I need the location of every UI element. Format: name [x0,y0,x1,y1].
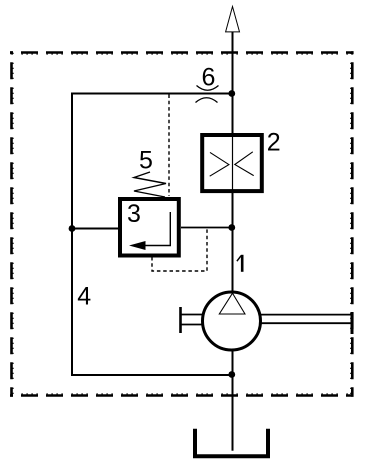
valve 3 internal flow arrow [145,212,170,246]
svg-text:4: 4 [77,283,91,311]
wire: main line node 6 to valve 2 [232,93,234,136]
enclosure dashed boundary top [10,51,354,54]
pilot line (dashed) from top branch to valve 3 [168,95,170,197]
node junction line 4 / valve 3 branch [69,225,76,232]
relief valve 3 body [120,199,179,256]
shut-off valve 2 body [202,135,262,191]
enclosure dashed boundary left [10,51,13,397]
svg-text:2: 2 [267,129,281,157]
spring 5 [134,172,166,197]
svg-text:6: 6 [202,63,216,91]
flow direction arrow (output port) [226,7,240,32]
node junction at 6 [228,90,235,97]
svg-text:3: 3 [127,200,141,228]
wire: branch to relief valve 3 left port [72,228,119,230]
wire: thin line through valve 2 [232,136,234,190]
pump 1 circle [203,292,261,350]
tank symbol [195,429,268,457]
pump shaft left lines [180,314,203,316]
coupling arcs 6 [197,86,219,91]
wire: pump 1 bottom to bottom node [232,350,234,376]
enclosure dashed boundary right [351,51,354,397]
pilot line (dashed) valve 3 drain loop [152,228,207,271]
wire: valve 2 to node at pilot junction [232,190,234,229]
label 1 [241,255,244,272]
wire: relief valve 3 right port to main line [181,227,232,229]
pump shaft right end bar [351,312,354,334]
wire: bypass line 4 bottom horizontal [71,374,232,376]
wire: bypass line 4 vertical [71,93,73,377]
wire: bottom node to tank [232,375,234,451]
pump 1 flow triangle [219,293,245,314]
enclosure dashed boundary bottom [10,394,354,397]
wire: main pressure line top (arrow to node 6) [232,32,234,94]
node junction main line / valve 3 [228,224,235,231]
pump shaft right lines [260,314,352,316]
pump shaft left end bar [179,307,182,333]
valve 2 left chevron [210,152,229,176]
wire: top branch horizontal (node 6 to line 4) [71,93,232,95]
wire: node to pump 1 top [232,228,234,292]
svg-text:5: 5 [139,147,153,175]
node junction bottom bypass [228,371,235,378]
valve 2 right chevron [235,152,254,176]
